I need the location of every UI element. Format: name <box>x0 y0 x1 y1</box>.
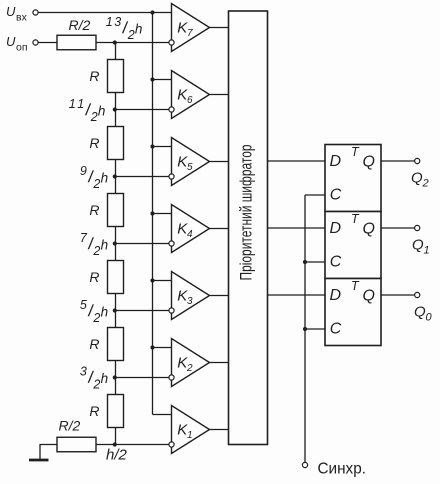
wire encoder output 0 to D input <box>268 294 326 296</box>
ground <box>29 459 49 462</box>
svg-text:Q: Q <box>414 303 426 320</box>
inverting input circle K7 <box>169 40 174 45</box>
svg-text:h: h <box>101 171 109 186</box>
resistor R (ladder 1) <box>108 60 124 93</box>
svg-text:2: 2 <box>92 244 100 258</box>
op-amp comparator K2 <box>172 339 210 387</box>
wire tap to K3 inverting input <box>116 310 172 312</box>
flip-flop U2 (T-trigger) <box>325 212 381 279</box>
svg-text:2: 2 <box>127 28 135 42</box>
wire clock to C of FF3 <box>305 328 325 330</box>
svg-text:R: R <box>89 68 99 84</box>
svg-text:11: 11 <box>69 97 85 111</box>
svg-text:2: 2 <box>186 363 193 374</box>
svg-text:Q: Q <box>363 220 375 237</box>
svg-text:0: 0 <box>426 312 433 324</box>
wire U_op to R/2 <box>38 42 57 44</box>
svg-text:7: 7 <box>187 28 193 39</box>
wire U_vx vertical bus <box>152 13 154 415</box>
svg-text:Q: Q <box>412 236 424 253</box>
wire Q0 output <box>381 294 415 296</box>
inverting input circle K5 <box>169 174 174 179</box>
op-amp comparator K3 <box>172 272 210 320</box>
op-amp comparator K1 <box>172 406 210 454</box>
svg-text:3: 3 <box>187 296 193 307</box>
inverting input circle K1 <box>169 442 174 447</box>
svg-text:Q: Q <box>411 169 423 186</box>
svg-text:7: 7 <box>80 231 88 245</box>
inverting input circle K2 <box>169 375 174 380</box>
svg-text:вх: вх <box>16 11 28 23</box>
svg-text:h: h <box>101 371 109 386</box>
svg-text:R: R <box>89 336 99 352</box>
priority encoder box <box>229 11 268 445</box>
wire Q1 output <box>381 227 415 229</box>
svg-text:1: 1 <box>424 245 430 257</box>
svg-text:4: 4 <box>187 229 193 240</box>
wire tap to K4 inverting input <box>116 243 172 245</box>
svg-text:2: 2 <box>422 178 429 190</box>
wire tap to K6 inverting input <box>116 109 172 111</box>
junction on bus at K4 <box>150 211 154 215</box>
wire bus stub to K6 + input <box>153 79 172 81</box>
node sync terminal <box>302 462 307 467</box>
wire U_vx to comparator K7 + input <box>38 12 171 14</box>
wire tap to K5 inverting input <box>116 176 172 178</box>
node Q1 terminal <box>415 225 420 230</box>
svg-text:R/2: R/2 <box>69 17 91 33</box>
wire clock to C of FF1 <box>305 194 325 196</box>
wire K7 output to encoder <box>210 27 229 29</box>
svg-text:R: R <box>89 403 99 419</box>
wire tap to K2 inverting input <box>116 377 172 379</box>
resistor R/2 bottom <box>57 437 96 452</box>
wire K2 output to encoder <box>210 362 229 364</box>
resistor R/2 top <box>57 35 96 50</box>
junction clock FF3 <box>303 327 307 331</box>
svg-text:U: U <box>6 4 16 19</box>
wire h/2 tap to K1 inverting input <box>96 444 172 446</box>
svg-text:5: 5 <box>80 298 87 312</box>
svg-text:h: h <box>98 104 106 119</box>
node U_op input terminal <box>33 40 38 45</box>
wire encoder output 2 to D input <box>268 160 326 162</box>
svg-text:R: R <box>89 135 99 151</box>
node Q2 terminal <box>415 158 420 163</box>
op-amp comparator K4 <box>172 205 210 253</box>
svg-text:2: 2 <box>92 311 100 325</box>
svg-text:h: h <box>135 22 143 37</box>
svg-text:R: R <box>89 269 99 285</box>
junction on bus at K7 <box>150 10 154 14</box>
resistor R (ladder 5) <box>108 328 124 361</box>
inverting input circle K3 <box>169 308 174 313</box>
svg-text:2: 2 <box>90 110 98 124</box>
junction ladder bottom h/2 <box>113 442 117 446</box>
node Q0 terminal <box>415 292 420 297</box>
svg-text:C: C <box>330 254 342 271</box>
svg-text:C: C <box>330 321 342 338</box>
wire K6 output to encoder <box>210 94 229 96</box>
junction clock FF2 <box>303 260 307 264</box>
svg-text:5: 5 <box>187 162 193 173</box>
junction on bus at K6 <box>150 77 154 81</box>
svg-text:9: 9 <box>80 164 87 178</box>
junction ladder tap <box>113 174 117 178</box>
wire clock to C of FF2 <box>305 261 325 263</box>
wire K3 output to encoder <box>210 295 229 297</box>
svg-text:D: D <box>330 153 342 170</box>
svg-text:Синхр.: Синхр. <box>318 460 366 477</box>
svg-text:2: 2 <box>92 177 100 191</box>
wire clock vertical <box>304 195 306 462</box>
junction on bus at K3 <box>150 278 154 282</box>
wire resistor ladder vertical <box>115 43 117 445</box>
wire K4 output to encoder <box>210 228 229 230</box>
node U_vx input terminal <box>33 10 38 15</box>
junction ladder tap <box>113 107 117 111</box>
junction on bus at K2 <box>150 345 154 349</box>
svg-text:6: 6 <box>187 95 193 106</box>
svg-text:h: h <box>101 305 109 320</box>
wire bus stub to K2 + input <box>153 347 172 349</box>
svg-text:оп: оп <box>16 41 28 53</box>
svg-text:C: C <box>330 187 342 204</box>
wire encoder output 1 to D input <box>268 227 326 229</box>
svg-text:2: 2 <box>92 378 100 392</box>
wire K1 output to encoder <box>210 429 229 431</box>
wire R/2 to ground <box>40 444 58 446</box>
svg-text:D: D <box>330 220 342 237</box>
svg-text:1: 1 <box>187 430 193 441</box>
svg-text:Q: Q <box>363 287 375 304</box>
svg-text:R/2: R/2 <box>59 418 81 434</box>
op-amp comparator K6 <box>172 71 210 119</box>
svg-text:U: U <box>6 34 16 49</box>
svg-text:D: D <box>330 287 342 304</box>
op-amp comparator K7 <box>172 4 210 52</box>
junction ladder tap <box>113 241 117 245</box>
wire K5 output to encoder <box>210 161 229 163</box>
junction ladder tap <box>113 375 117 379</box>
flip-flop U3 (T-trigger) <box>325 279 381 346</box>
resistor R (ladder 2) <box>108 127 124 160</box>
wire 13/2h tap to K7 inverting input <box>96 42 172 44</box>
wire Q2 output <box>381 160 415 162</box>
junction ladder tap <box>113 308 117 312</box>
inverting input circle K6 <box>169 107 174 112</box>
resistor R (ladder 4) <box>108 261 124 294</box>
wire bus stub to K4 + input <box>153 213 172 215</box>
wire bus elbow to K1 + input <box>153 414 172 416</box>
svg-text:h/2: h/2 <box>106 447 128 464</box>
svg-text:R: R <box>89 202 99 218</box>
resistor R (ladder 3) <box>108 194 124 227</box>
wire bus stub to K3 + input <box>153 280 172 282</box>
svg-text:Пріоритетний шифратор: Пріоритетний шифратор <box>237 145 255 281</box>
junction on bus at K5 <box>150 144 154 148</box>
op-amp comparator K5 <box>172 138 210 186</box>
inverting input circle K4 <box>169 241 174 246</box>
flip-flop U1 (T-trigger) <box>325 145 381 212</box>
svg-text:Q: Q <box>363 153 375 170</box>
svg-text:13: 13 <box>106 15 122 29</box>
svg-text:h: h <box>101 238 109 253</box>
svg-text:3: 3 <box>80 365 87 379</box>
resistor R (ladder 6) <box>108 395 124 428</box>
junction ladder top 13/2h <box>113 40 117 44</box>
wire bus stub to K5 + input <box>153 146 172 148</box>
